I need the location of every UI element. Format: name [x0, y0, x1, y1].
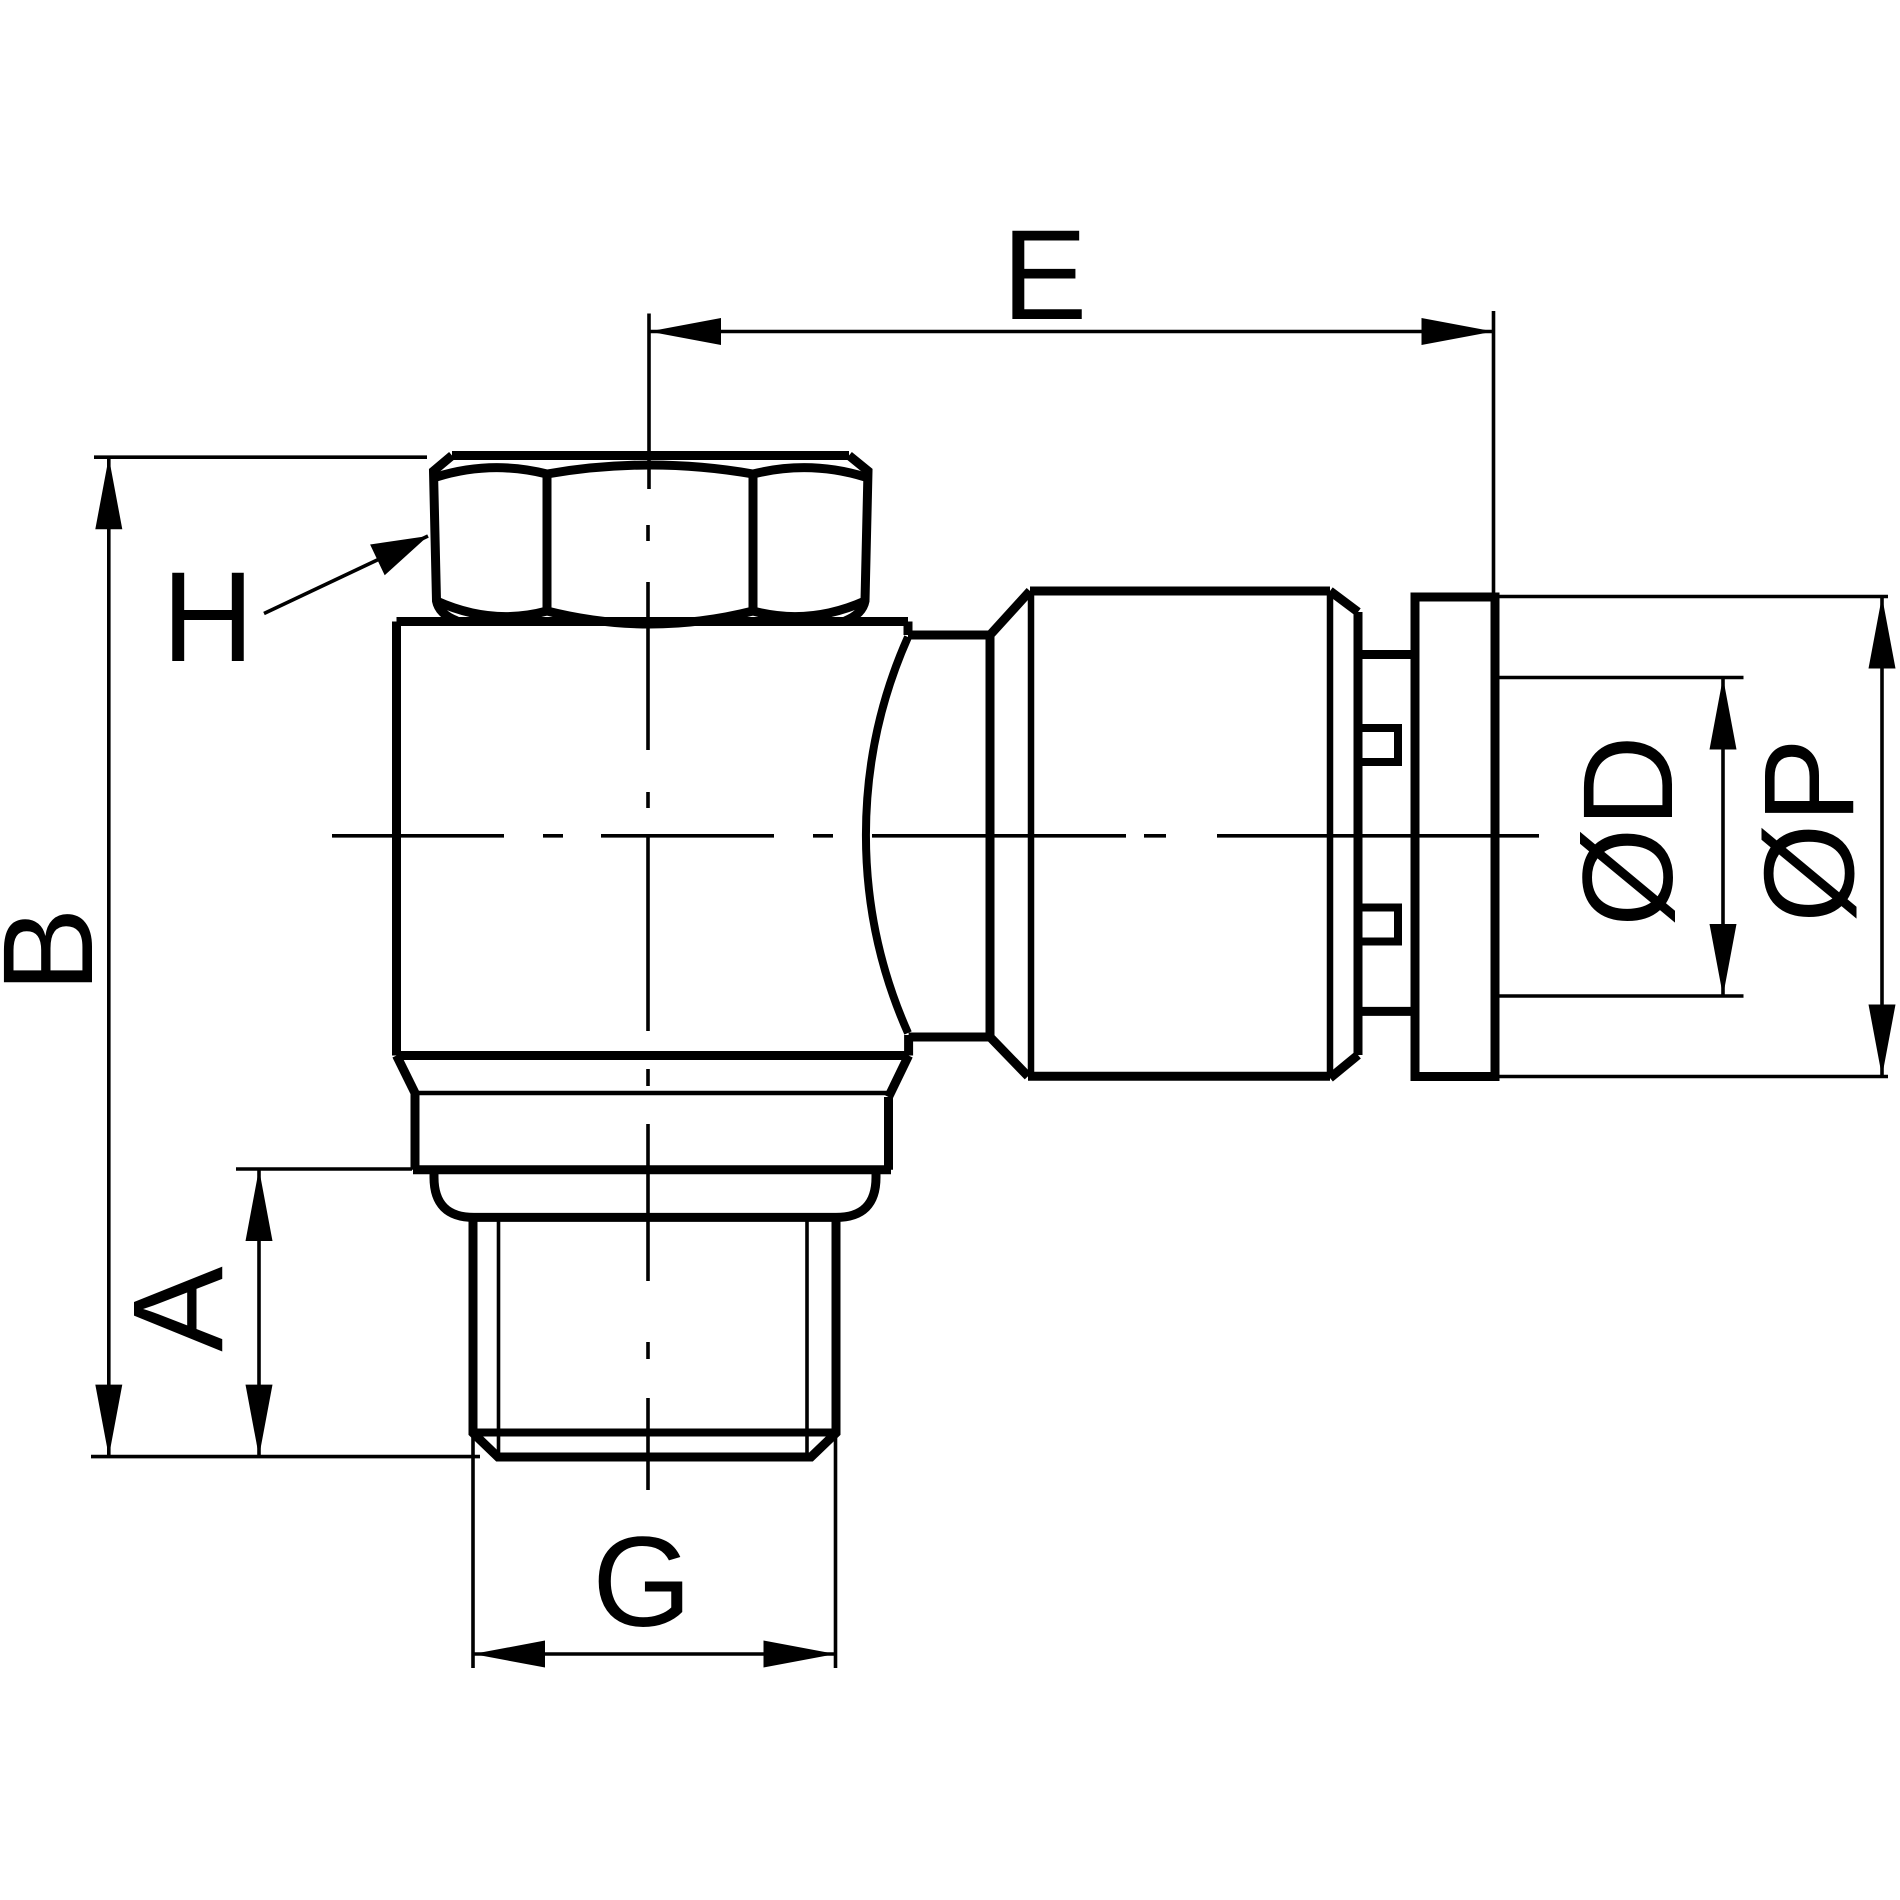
dim B line	[107, 457, 111, 1456]
dim B extension top	[94, 455, 427, 459]
arrow OD top	[1710, 678, 1737, 750]
ring below body	[397, 1056, 909, 1170]
leader line H	[264, 536, 428, 614]
dim OP line	[1880, 597, 1884, 1077]
svg-text:H: H	[162, 546, 254, 689]
centerline vertical	[646, 525, 650, 1490]
centerline horizontal	[332, 834, 1539, 838]
svg-text:B: B	[0, 907, 120, 992]
arrow B top	[95, 457, 122, 529]
arrowheads	[95, 318, 1895, 1668]
collet sleeve	[990, 591, 1358, 1078]
arrow A bottom	[246, 1385, 273, 1457]
arrow G right	[764, 1641, 836, 1668]
body (vertical)	[397, 622, 909, 1056]
dim B extension bottom (shared with A)	[91, 1455, 480, 1459]
arrow OD bottom	[1710, 924, 1737, 996]
hex nut H	[434, 456, 869, 625]
dim OP extension top	[1497, 595, 1888, 599]
svg-text:ØD: ØD	[1557, 735, 1700, 927]
threaded stud G	[473, 1217, 836, 1457]
dim OD extension bottom	[1497, 994, 1744, 998]
dim G line	[473, 1652, 836, 1656]
arrow E left	[649, 318, 721, 345]
arrow G left	[473, 1641, 545, 1668]
shoulder above thread	[434, 1170, 876, 1218]
arrow OP top	[1869, 597, 1896, 669]
svg-text:G: G	[592, 1511, 692, 1654]
neck between body and collet	[908, 635, 990, 1037]
collet chamfer break lines	[1031, 593, 1330, 1076]
dim A extension top	[236, 1167, 412, 1171]
dim OP extension bottom	[1497, 1075, 1888, 1079]
svg-text:E: E	[1002, 204, 1087, 347]
arrow E right	[1422, 318, 1494, 345]
arrow B bottom	[95, 1385, 122, 1457]
neck between collet and flange	[1358, 655, 1415, 1012]
release flange P	[1415, 597, 1495, 1077]
dim A line	[257, 1169, 261, 1457]
latch tooth lower	[1358, 908, 1398, 942]
dim E extension right	[1492, 311, 1496, 594]
arrow H leader	[370, 536, 428, 575]
arrow A top	[246, 1169, 273, 1241]
svg-text:ØP: ØP	[1739, 738, 1882, 923]
dim G extension left	[471, 1437, 475, 1668]
latch tooth upper	[1358, 728, 1398, 762]
dim G extension right	[834, 1437, 838, 1668]
thin dimension work	[91, 311, 1888, 1668]
dim OD line	[1721, 678, 1725, 997]
thread minor lines	[499, 1219, 808, 1455]
dim OD extension top	[1497, 676, 1744, 680]
dim E line	[649, 330, 1494, 334]
svg-text:A: A	[108, 1266, 251, 1352]
blend curve body to collet	[866, 637, 908, 1033]
dim E extension left	[647, 314, 651, 490]
arrow OP bottom	[1869, 1005, 1896, 1077]
